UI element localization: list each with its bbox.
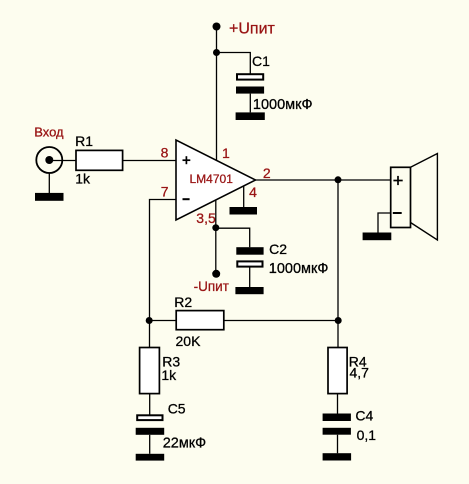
ground [235, 287, 263, 294]
svg-text:R1: R1 [75, 133, 93, 149]
node +Upit terminal [213, 21, 276, 38]
wire output [256, 179, 391, 181]
svg-text:0,1: 0,1 [357, 427, 377, 443]
wire pin8 [123, 160, 176, 162]
wire [337, 435, 339, 454]
ground [363, 233, 392, 241]
capacitor C5 [136, 400, 206, 451]
wire [249, 94, 251, 113]
wire [337, 394, 339, 414]
wire [150, 320, 177, 322]
wire pin3,5 [215, 200, 217, 227]
wire [149, 394, 151, 416]
ground [236, 112, 265, 120]
wire [149, 321, 151, 348]
junction [213, 49, 220, 56]
wire [149, 435, 151, 454]
resistor R3 [140, 348, 181, 394]
wire [217, 53, 251, 75]
ground [35, 193, 64, 201]
resistor R4 [328, 348, 369, 394]
svg-text:1k: 1k [161, 367, 177, 383]
wire pin4 [243, 186, 245, 207]
wire [249, 267, 251, 287]
wire [216, 228, 250, 247]
junction [212, 224, 219, 231]
svg-text:1: 1 [222, 145, 230, 161]
wire [216, 27, 218, 53]
node -Upit terminal [194, 270, 229, 294]
wire [48, 173, 50, 193]
ground [136, 454, 165, 461]
svg-text:LM4701: LM4701 [190, 172, 234, 186]
svg-text:20K: 20K [176, 333, 202, 349]
svg-text:1000мкФ: 1000мкФ [269, 261, 329, 277]
svg-text:C5: C5 [168, 400, 186, 416]
svg-text:22мкФ: 22мкФ [163, 436, 206, 452]
ground [230, 207, 258, 215]
wire pin7 [150, 200, 177, 321]
capacitor C1 [236, 53, 312, 113]
resistor R1 [75, 133, 123, 187]
ground [323, 453, 352, 460]
wire speaker minus [378, 213, 391, 233]
junction [146, 317, 153, 324]
svg-text:2: 2 [263, 165, 271, 181]
wire [224, 320, 338, 322]
svg-text:4,7: 4,7 [350, 364, 370, 380]
svg-text:3,5: 3,5 [196, 210, 216, 226]
input connector X1 [34, 124, 64, 173]
svg-text:7: 7 [161, 184, 169, 200]
wire pin1 supply [216, 53, 218, 161]
svg-text:4: 4 [249, 184, 257, 200]
junction [335, 176, 342, 183]
svg-text:R2: R2 [174, 294, 192, 310]
capacitor C2 [236, 241, 328, 277]
svg-text:-Uпит: -Uпит [194, 279, 229, 294]
junction [335, 317, 342, 324]
svg-text:C2: C2 [269, 241, 287, 257]
svg-text:1000мкФ: 1000мкФ [253, 97, 313, 113]
wire feedback vertical [337, 180, 339, 348]
capacitor C4 [323, 408, 377, 443]
svg-text:C1: C1 [252, 53, 270, 69]
wire [49, 160, 75, 162]
wire [215, 228, 217, 274]
resistor R2 [174, 294, 223, 349]
svg-text:C4: C4 [355, 408, 373, 424]
svg-text:1k: 1k [75, 171, 91, 187]
svg-text:8: 8 [161, 145, 169, 161]
svg-text:Вход: Вход [34, 124, 64, 139]
speaker LS1 [391, 154, 438, 241]
op-amp U1 LM4701 [176, 140, 256, 220]
svg-text:+Uпит: +Uпит [229, 21, 276, 38]
